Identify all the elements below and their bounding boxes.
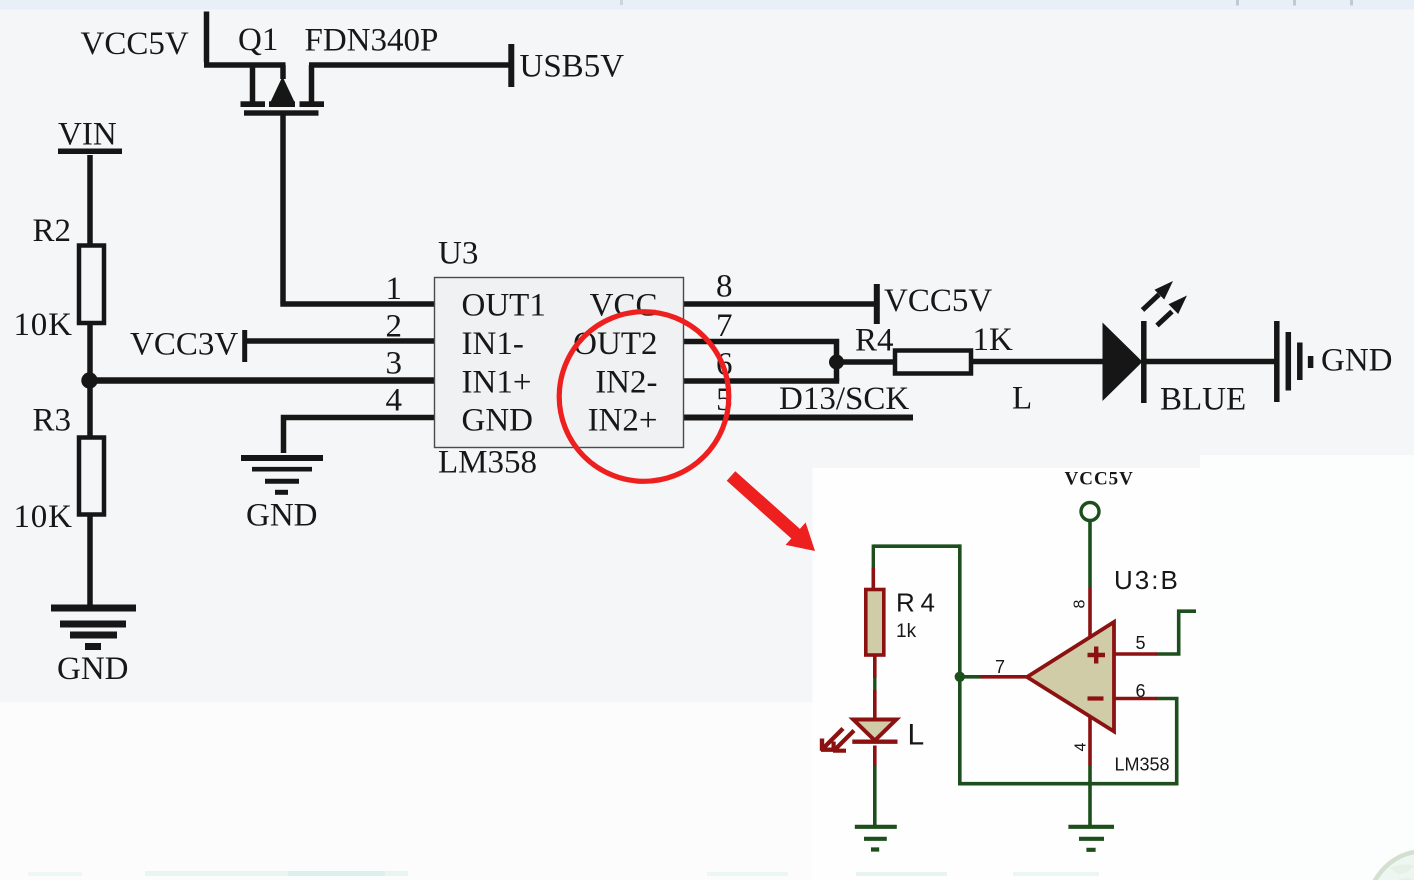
wire node to R3	[87, 381, 93, 438]
transistor Q1 right leg	[309, 65, 315, 102]
svg-text:R: R	[896, 588, 915, 618]
inset wire VCC5V to pin8	[1088, 522, 1092, 588]
LED emission arrow shafts	[1143, 295, 1173, 326]
resistor R3 body	[79, 438, 104, 515]
svg-text:D13/SCK: D13/SCK	[779, 381, 909, 417]
inset wire node column	[958, 544, 962, 783]
INSET-TEXTS	[896, 469, 1180, 775]
LED emission arrow heads	[1155, 281, 1188, 314]
wire node to R4	[837, 359, 896, 365]
wire pin8 to VCC5V	[684, 301, 875, 307]
svg-text:VCC: VCC	[590, 288, 658, 324]
svg-text:Q1: Q1	[238, 22, 278, 58]
wire pin5 D13/SCK	[684, 415, 914, 421]
inset ground under LED	[855, 827, 897, 850]
inset LED cathode pin red	[873, 746, 877, 767]
svg-text:1K: 1K	[973, 322, 1014, 358]
transistor Q1 gate wire to pin1	[280, 115, 434, 304]
annotation red circle	[559, 312, 729, 482]
wire VCC3V to pin2	[247, 338, 435, 344]
node junction dot pin7/pin6	[829, 355, 844, 370]
svg-text:8: 8	[1072, 599, 1089, 608]
diode LED BLUE	[1103, 323, 1143, 402]
annotation red arrow	[727, 471, 815, 551]
terminal bar USB5V	[508, 44, 514, 87]
wire LED to ground	[1146, 359, 1277, 365]
svg-text:VIN: VIN	[58, 117, 117, 153]
inset R4 top pin red	[871, 568, 875, 590]
svg-text:8: 8	[716, 269, 733, 305]
svg-text:1: 1	[386, 271, 403, 307]
wire pin6 to node	[684, 378, 840, 384]
svg-text:R2: R2	[33, 213, 72, 249]
svg-text:GND: GND	[1321, 343, 1393, 379]
svg-text:VCC5V: VCC5V	[884, 283, 992, 319]
svg-text:LM358: LM358	[438, 445, 537, 481]
svg-text:VCC5V: VCC5V	[1065, 469, 1134, 490]
power rail VCC5V wire	[204, 12, 286, 66]
svg-text:USB5V: USB5V	[520, 49, 625, 85]
svg-text:7: 7	[995, 657, 1005, 677]
wire pin4 to ground	[284, 415, 435, 453]
svg-text:L: L	[1012, 381, 1032, 417]
svg-text:GND: GND	[57, 651, 129, 687]
svg-text:R4: R4	[855, 323, 894, 359]
INSET-RED-PINS	[821, 568, 1157, 767]
svg-text:VCC3V: VCC3V	[130, 327, 238, 363]
wire drain to USB5V	[309, 62, 510, 68]
inset wire R4-LED green gap	[873, 678, 876, 691]
svg-text:IN2-: IN2-	[595, 364, 657, 400]
svg-text:VCC5V: VCC5V	[81, 26, 189, 62]
ground symbol under U3	[241, 455, 323, 461]
inset pin 4 red	[1088, 717, 1092, 766]
svg-text:FDN340P: FDN340P	[305, 23, 439, 59]
inset wire top R4 to node column	[873, 544, 960, 548]
wire R3 to ground	[87, 515, 93, 606]
transistor Q1 source stub	[280, 65, 286, 79]
svg-text:10K: 10K	[14, 307, 73, 343]
inset LED arrow 1	[821, 729, 843, 751]
node junction dot R2/R3	[81, 372, 97, 388]
inset resistor R4 body	[866, 590, 884, 656]
svg-text:U3: U3	[438, 236, 478, 272]
svg-text:IN2+: IN2+	[588, 403, 658, 439]
inset wire LED to ground	[873, 766, 877, 826]
transistor Q1 left leg	[250, 65, 256, 102]
wire R4 to LED	[971, 359, 1104, 365]
wire node to pin3	[90, 377, 435, 384]
inset wire pin5 bend	[1157, 611, 1197, 654]
terminal bar VCC5V right	[874, 284, 880, 324]
svg-text:4: 4	[386, 383, 403, 419]
inset junction dot node 7	[955, 672, 965, 682]
resistor R2 body	[79, 246, 104, 324]
wire VIN to R2	[87, 155, 93, 245]
chip U3 box	[435, 278, 684, 448]
MAIN-TEXTS	[14, 22, 1393, 687]
svg-text:7: 7	[716, 308, 733, 344]
svg-text:GND: GND	[462, 403, 534, 439]
svg-text:2: 2	[386, 309, 403, 345]
terminal bar VCC3V	[242, 330, 247, 362]
inset ground under op-amp	[1068, 827, 1114, 850]
inset wire pin7 green	[958, 675, 981, 679]
inset op-amp minus input mark	[1088, 696, 1104, 700]
svg-text:LM358: LM358	[1115, 755, 1170, 775]
wire pin7 to node	[684, 339, 837, 381]
svg-text:IN1-: IN1-	[462, 326, 524, 362]
svg-text:U3:B: U3:B	[1114, 565, 1180, 595]
terminal bar VIN	[58, 149, 122, 155]
inset wire pin6 feedback	[958, 699, 1177, 784]
inset R4 bottom pin red	[873, 655, 877, 678]
LED cathode bar	[1141, 321, 1147, 403]
ground symbol right	[1277, 321, 1311, 402]
inset wire R4 top pin green	[872, 545, 875, 568]
wire R2 to node	[87, 323, 93, 381]
inset LED top pin red	[873, 690, 877, 720]
svg-text:10K: 10K	[14, 499, 73, 535]
resistor R4 body	[895, 351, 971, 374]
transistor Q1 body-diode triangle	[241, 77, 325, 116]
inset op-amp U3:B triangle	[1027, 622, 1114, 732]
svg-text:4: 4	[921, 588, 935, 618]
svg-text:BLUE: BLUE	[1160, 382, 1246, 418]
INSET-GREEN-WIRES	[855, 503, 1196, 850]
inset pin 8 red	[1088, 588, 1092, 637]
svg-text:3: 3	[386, 346, 403, 382]
MAIN-SCHEMATIC-LINES	[51, 12, 1311, 647]
svg-text:5: 5	[1136, 633, 1146, 653]
svg-text:1k: 1k	[896, 621, 917, 642]
inset pin 7 red	[981, 675, 1029, 679]
svg-text:OUT1: OUT1	[462, 288, 546, 324]
inset pin 6 red	[1114, 697, 1157, 701]
inset pin 5 red	[1114, 652, 1157, 656]
inset wire pin4 to ground	[1088, 766, 1092, 826]
svg-text:L: L	[908, 719, 925, 752]
svg-text:R3: R3	[33, 403, 72, 439]
svg-text:4: 4	[1073, 742, 1090, 751]
inset LED cathode bar	[852, 740, 897, 744]
svg-text:IN1+: IN1+	[462, 364, 532, 400]
inset LED arrow 2	[833, 731, 854, 752]
inset terminal VCC5V circle	[1081, 503, 1099, 521]
inset op-amp plus input mark	[1088, 647, 1106, 664]
svg-text:GND: GND	[246, 498, 318, 534]
ground symbol lower-left	[51, 608, 136, 647]
inset LED triangle	[853, 720, 896, 741]
svg-text:6: 6	[1136, 681, 1146, 701]
